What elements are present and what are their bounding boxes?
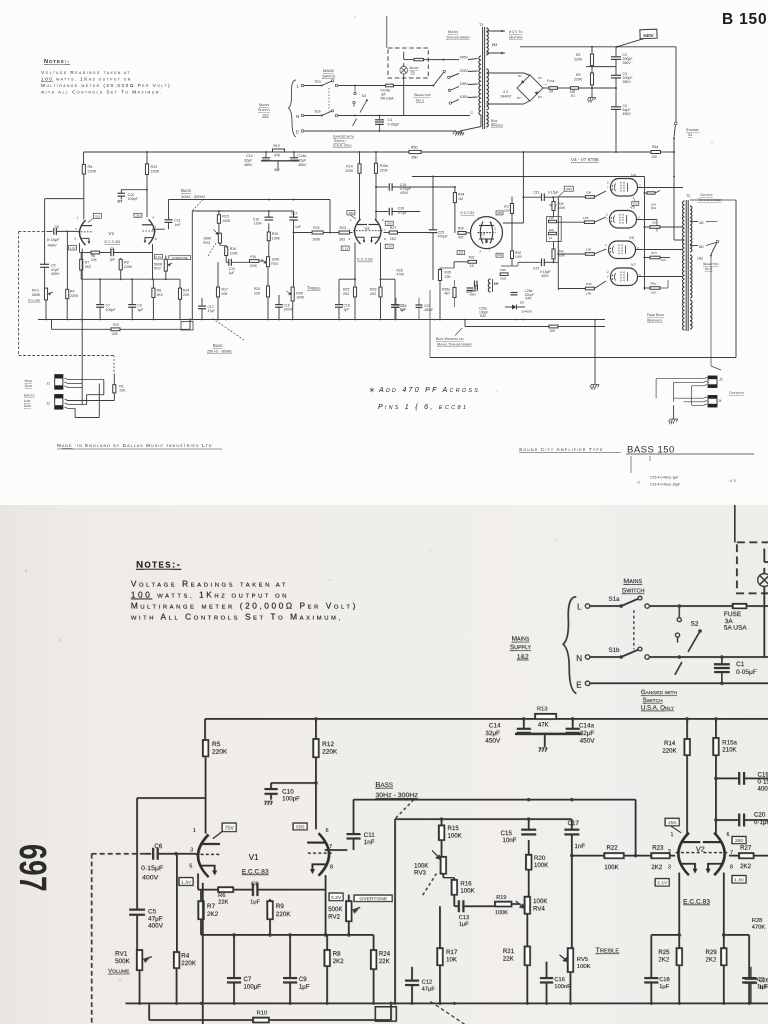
schematic top view — [19, 16, 754, 487]
bottom ink thickening pass — [92, 488, 768, 1024]
svg-text:697: 697 — [11, 844, 53, 892]
page background bottom scan — [0, 505, 768, 1024]
page background top scan — [0, 0, 768, 505]
page number 697 rotated — [11, 844, 53, 892]
svg-text:B 150: B 150 — [722, 11, 767, 28]
schematic bottom magnified view — [92, 488, 768, 1024]
